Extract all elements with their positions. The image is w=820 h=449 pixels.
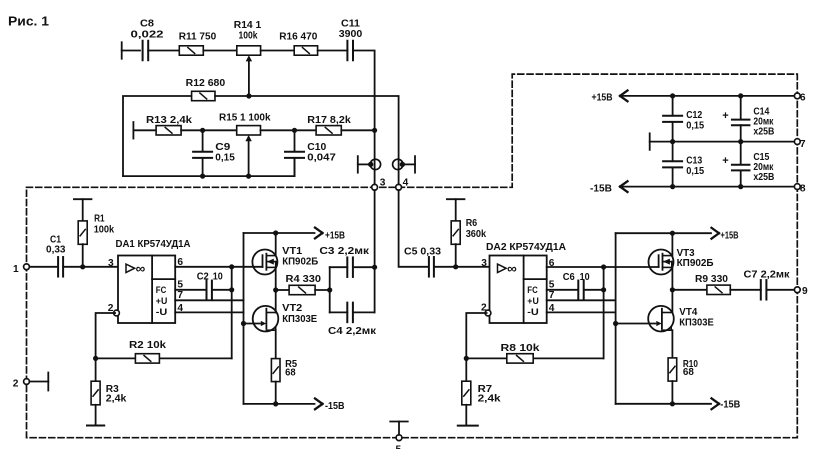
wire pin2 to R2 [96,313,116,358]
junction R8 / R7 [464,356,469,361]
resistor R9 [695,274,730,295]
svg-text:0,15: 0,15 [686,166,704,177]
svg-text:DA2 КР574УД1А: DA2 КР574УД1А [486,242,567,253]
wire DA2 output vertical [603,267,605,358]
wire R9-C7 [730,289,761,291]
junction VT1 source / R4 [273,287,278,292]
wire R15-R17 [261,129,317,131]
junction R4 / bracket [327,287,332,292]
arrow -15V supply [590,181,628,194]
svg-text:9: 9 [802,286,808,297]
capacitor C11 [339,19,363,61]
wire VT4 source [671,330,673,358]
svg-text:C10: C10 [307,142,326,153]
junction C12 bottom [670,139,675,144]
pin 3 label DA2 [481,258,487,269]
wire VT2 source [275,330,277,358]
svg-text:7: 7 [800,139,806,150]
wire R14 wiper [246,55,252,96]
capacitor C13 [663,142,704,187]
svg-text:0,15: 0,15 [215,153,235,164]
junction C10 top [292,128,297,133]
wire node7 rail [650,141,798,143]
wire node4 line through connector [398,159,400,184]
junction R1 bottom [80,264,85,269]
svg-text:+U: +U [527,296,539,307]
junction C14 bottom [738,139,743,144]
svg-text:R16 470: R16 470 [279,32,317,43]
svg-text:8: 8 [800,183,806,194]
open terminal node7 rail [649,133,651,150]
wire C1-pin3 [63,266,118,268]
junction C13 bottom [670,184,675,189]
resistor R2 [129,340,166,363]
capacitor C10 [285,130,336,176]
node 6 [794,93,806,104]
junction output node DA1 [229,264,234,269]
transistor VT3 [649,248,714,275]
arrow -15V left [315,399,345,413]
svg-text:R12 680: R12 680 [186,78,226,89]
svg-text:0,022: 0,022 [131,30,164,41]
svg-text:7: 7 [177,290,183,301]
wire source-R4 [276,289,289,291]
open terminal at R13 input [132,122,134,139]
svg-text:C11: C11 [341,19,360,30]
svg-text:∞: ∞ [507,261,517,276]
capacitor C8 [131,19,164,61]
wire VT2 gate [244,323,261,325]
pin 3 label DA1 [108,258,114,269]
wire +15V supply rail [620,95,797,97]
svg-text:-15В: -15В [590,183,612,194]
svg-text:100k: 100k [94,225,115,236]
svg-text:2,4k: 2,4k [478,394,501,405]
wire pin6 to VT1 gate [175,266,262,268]
capacitor C4 [328,303,377,337]
wire -15V supply rail [620,186,797,188]
svg-text:-15В: -15В [720,400,740,411]
wire pin5-C2 [175,289,206,291]
resistor R5 [271,359,297,382]
wire -15V rail left [244,403,315,405]
svg-text:х25В: х25В [753,127,774,138]
op-amp DA1 [114,239,192,323]
wire C11 to node 3 line [353,51,375,131]
resistor R16 [279,32,317,56]
wire C5-pin3 DA2 [434,266,490,268]
junction C14 top [738,93,743,98]
svg-text:R13 2,4k: R13 2,4k [146,115,192,126]
wire VT4 gate [616,323,656,325]
junction C9 bottom [200,174,205,179]
wire R2 row [96,357,232,359]
wire VT2 drain [275,290,277,313]
svg-text:КП902Б: КП902Б [282,257,318,268]
svg-text:R8 10k: R8 10k [501,343,540,354]
resistor R13 [146,115,192,135]
connector X2 [393,156,415,173]
wire pin7 +U [175,299,243,301]
junction C3 / node3 line [372,265,377,270]
junction C9 top [200,128,205,133]
wire C2-output vertical [212,289,232,291]
svg-text:R1: R1 [94,214,105,225]
svg-text:0,33: 0,33 [46,245,66,256]
junction C15 bottom [738,184,743,189]
wire R13-R15 [181,129,237,131]
wire R13 input [133,129,156,131]
wire bottom rail of RC network [123,158,295,176]
svg-text:R11 750: R11 750 [179,32,217,43]
junction VT1 drain / +15V [273,230,278,235]
capacitor C2 [197,271,223,299]
svg-text:C5 0,33: C5 0,33 [404,247,441,258]
node 7 [794,139,806,150]
wire VT3 drain [671,233,673,255]
svg-text:+15В: +15В [325,231,345,242]
junction C12 top [670,93,675,98]
svg-text:C3 2,2мк: C3 2,2мк [319,246,370,257]
wire R5 to -15V rail [275,382,277,404]
svg-text:4: 4 [403,177,409,188]
transistor VT2 [253,303,318,332]
svg-text:Рис. 1: Рис. 1 [8,15,49,29]
svg-text:5: 5 [396,445,402,449]
pin 2 label DA2 [481,302,487,313]
junction R2 / R3 [93,356,98,361]
arrow +15V supply [592,91,628,104]
svg-text:0,047: 0,047 [307,153,336,164]
ground under R7 [458,405,478,426]
svg-text:2,4k: 2,4k [106,394,127,405]
pin 6 label DA1 [177,257,183,268]
resistor R6 [447,199,487,267]
wire C3/C4 bracket [329,267,331,312]
resistor R8 [501,343,540,363]
svg-text:3: 3 [481,258,487,269]
svg-text:1: 1 [13,264,19,275]
wire node2 stub [29,381,48,383]
svg-text:7: 7 [549,290,555,301]
wire C8-R11 [148,50,179,52]
wire C8 input stub [122,50,140,52]
node 8 [794,183,806,194]
svg-text:+15В: +15В [721,230,739,241]
wire -15V rail right [616,403,711,405]
arrow +15V right [712,228,739,242]
capacitor C7 [744,270,798,300]
wire +15V rail left [244,232,315,234]
svg-text:360k: 360k [466,229,487,240]
node 9 [794,286,808,297]
junction R15 wiper bottom [246,174,251,179]
wire source-R9 [672,289,707,291]
capacitor C5 [404,247,441,277]
svg-text:R4 330: R4 330 [286,274,322,285]
node 2 [13,378,30,389]
svg-text:VT1: VT1 [282,246,302,257]
svg-text:2: 2 [481,302,487,313]
resistor R1 [74,199,115,267]
resistor R12 [186,78,226,101]
svg-text:3900: 3900 [339,29,363,40]
wire R14-R16 [261,50,295,52]
capacitor C1 [46,234,66,276]
svg-text:68: 68 [683,367,694,378]
wire R12 row [123,96,192,176]
svg-text:R9 330: R9 330 [695,274,728,285]
open terminal at C8 input [121,42,123,59]
junction C2 / output vertical [229,287,234,292]
svg-text:2: 2 [13,378,19,389]
arrow -15V right [712,398,741,410]
wire R12-corner [215,96,399,159]
wire R10 to -15V rail [671,381,673,404]
wire C6-output vertical [584,289,604,291]
svg-text:C7 2,2мк: C7 2,2мк [744,270,791,281]
resistor R4 [286,274,322,295]
svg-text:КП902Б: КП902Б [677,258,714,269]
svg-text:R2 10k: R2 10k [129,340,166,351]
wire node3 to C3 junction [374,190,376,312]
connector X1 [358,156,381,173]
junction R6 bottom [453,264,458,269]
transistor VT1 [252,246,318,275]
wire R16-C11 [318,50,348,52]
junction VT2 gate / supply vertical [241,321,246,326]
pin 5 label DA2 [549,280,555,291]
svg-text:-U: -U [156,307,168,318]
svg-text:-U: -U [527,307,539,318]
junction R5 / -15V [273,401,278,406]
svg-text:C8: C8 [140,19,154,30]
pin 2 label DA1 [108,303,114,314]
wire node1-C1 [29,266,57,268]
svg-text:-15В: -15В [325,401,345,412]
capacitor C12 [663,96,704,142]
resistor R10 [668,358,698,381]
svg-text:68: 68 [285,367,296,378]
wire R8 row [466,357,603,359]
svg-text:VT2: VT2 [282,303,302,314]
svg-text:C9: C9 [215,142,230,153]
capacitor C9 [193,130,235,176]
svg-text:х25В: х25В [753,172,774,183]
svg-text:FC: FC [156,285,167,296]
svg-text:10: 10 [213,271,223,282]
svg-text:+: + [722,110,728,122]
potentiometer R15 [219,113,271,136]
svg-text:C2: C2 [197,271,209,282]
junction VT3 source / R9 [670,287,675,292]
wire VT1 drain [275,233,277,256]
svg-text:6: 6 [800,93,806,104]
wire VT3 source [671,267,673,289]
ground terminal above node 5 [390,422,408,435]
wire R17 to node 3 line [341,129,374,131]
resistor R17 [307,115,351,135]
svg-text:10: 10 [580,272,590,283]
wire supply vertical right [615,233,617,404]
wire pin2 to R8 [466,313,486,358]
wire VT1 source [275,267,277,290]
wire R4-C3C4 bracket [315,289,330,291]
pin 7 label DA1 [177,290,183,301]
wire pin6 to VT3 gate [547,266,659,268]
node 3 [372,177,386,190]
svg-text:C12: C12 [686,110,702,121]
wire supply vertical left [243,233,245,404]
pin 5 label DA1 [177,280,183,291]
svg-text:DA1 КР574УД1А: DA1 КР574УД1А [116,239,192,250]
wire pin5-C6 [547,289,578,291]
resistor R11 [179,32,217,56]
capacitor C14 electrolytic [722,96,774,142]
svg-text:0,15: 0,15 [686,121,704,132]
resistor R3 [91,358,127,404]
svg-text:R6: R6 [466,218,478,229]
svg-text:R17 8,2k: R17 8,2k [307,115,351,126]
svg-text:3: 3 [108,258,114,269]
svg-text:КП303Е: КП303Е [282,314,317,325]
potentiometer R14 [234,20,262,55]
svg-text:FC: FC [527,285,538,296]
svg-text:+: + [722,155,728,167]
svg-text:C13: C13 [686,156,702,167]
junction VT4 gate / supply vertical [613,321,618,326]
wire pin7 +U DA2 [547,299,616,301]
svg-text:100k: 100k [239,31,258,42]
svg-text:VT4: VT4 [679,307,697,318]
node 1 [13,264,29,275]
wire R11-R14 [203,50,237,52]
pin 7 label DA2 [549,290,555,301]
wire R15 wiper [245,135,251,176]
junction VT3 drain / +15V [670,231,675,236]
figure caption [8,15,49,29]
capacitor C15 electrolytic [722,142,774,187]
junction output node DA2 [601,264,606,269]
open terminal node 2 [47,373,49,391]
wire VT4 drain [671,290,673,313]
svg-text:3: 3 [380,177,386,188]
pin 4 label DA2 [549,303,555,314]
svg-text:R15 1 100k: R15 1 100k [219,113,271,124]
transistor VT4 [648,306,714,332]
junction R14 wiper / R12 row [246,93,251,98]
junction R17 / C11 line [372,128,377,133]
node 4 [396,177,409,190]
wire node3 line through connector [374,130,376,184]
resistor R7 [462,358,501,404]
svg-text:R14 1: R14 1 [234,20,262,31]
arrow +15V left [315,228,345,242]
pin 6 label DA2 [549,258,555,269]
svg-text:КП303Е: КП303Е [679,318,714,329]
node 5 [396,435,402,449]
pin 4 label DA1 [177,303,183,314]
junction C6 / output vertical [601,287,606,292]
wire DA1 output vertical [231,267,233,359]
svg-text:∞: ∞ [136,261,146,276]
dashed enclosure border [27,74,798,438]
svg-text:C6: C6 [563,272,575,283]
wire +15V rail right [616,232,711,234]
svg-text:+U: +U [156,296,168,307]
capacitor C3 [319,246,374,277]
svg-text:C4 2,2мк: C4 2,2мк [328,326,377,337]
wire pin4 -U [175,311,243,313]
op-amp DA2 [485,242,567,323]
wire node4 to C5 [399,190,428,267]
junction R10 / -15V [670,401,675,406]
ground under R3 [87,405,104,426]
wire pin4 -U DA2 [547,311,616,313]
capacitor C6 [563,272,590,299]
svg-text:+15В: +15В [592,93,613,104]
